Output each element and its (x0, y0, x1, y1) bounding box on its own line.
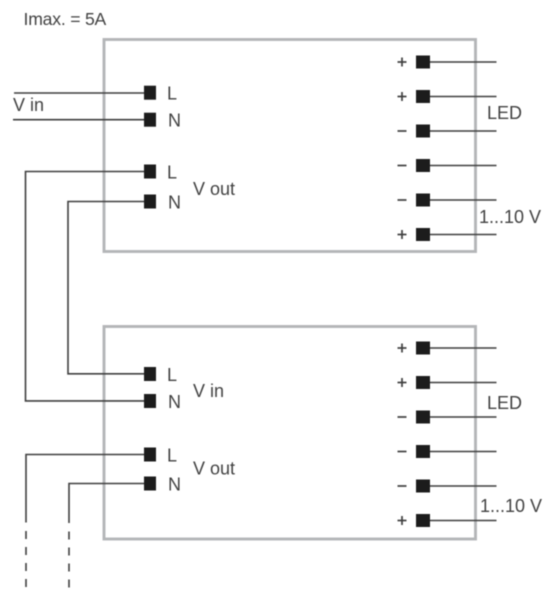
svg-text:Imax. = 5A: Imax. = 5A (24, 9, 107, 29)
svg-text:V in: V in (193, 381, 224, 401)
svg-text:N: N (168, 392, 181, 412)
svg-text:1...10 V: 1...10 V (479, 207, 541, 227)
svg-text:1...10 V: 1...10 V (480, 496, 542, 516)
svg-text:L: L (167, 163, 177, 183)
svg-text:L: L (167, 446, 177, 466)
svg-text:V in: V in (13, 95, 44, 115)
svg-text:LED: LED (487, 393, 522, 413)
svg-text:LED: LED (487, 103, 522, 123)
svg-text:L: L (167, 84, 177, 104)
svg-text:N: N (168, 193, 181, 213)
svg-text:N: N (168, 111, 181, 131)
svg-text:N: N (168, 475, 181, 495)
svg-text:V out: V out (193, 179, 235, 199)
svg-text:V out: V out (193, 459, 235, 479)
svg-text:L: L (167, 365, 177, 385)
